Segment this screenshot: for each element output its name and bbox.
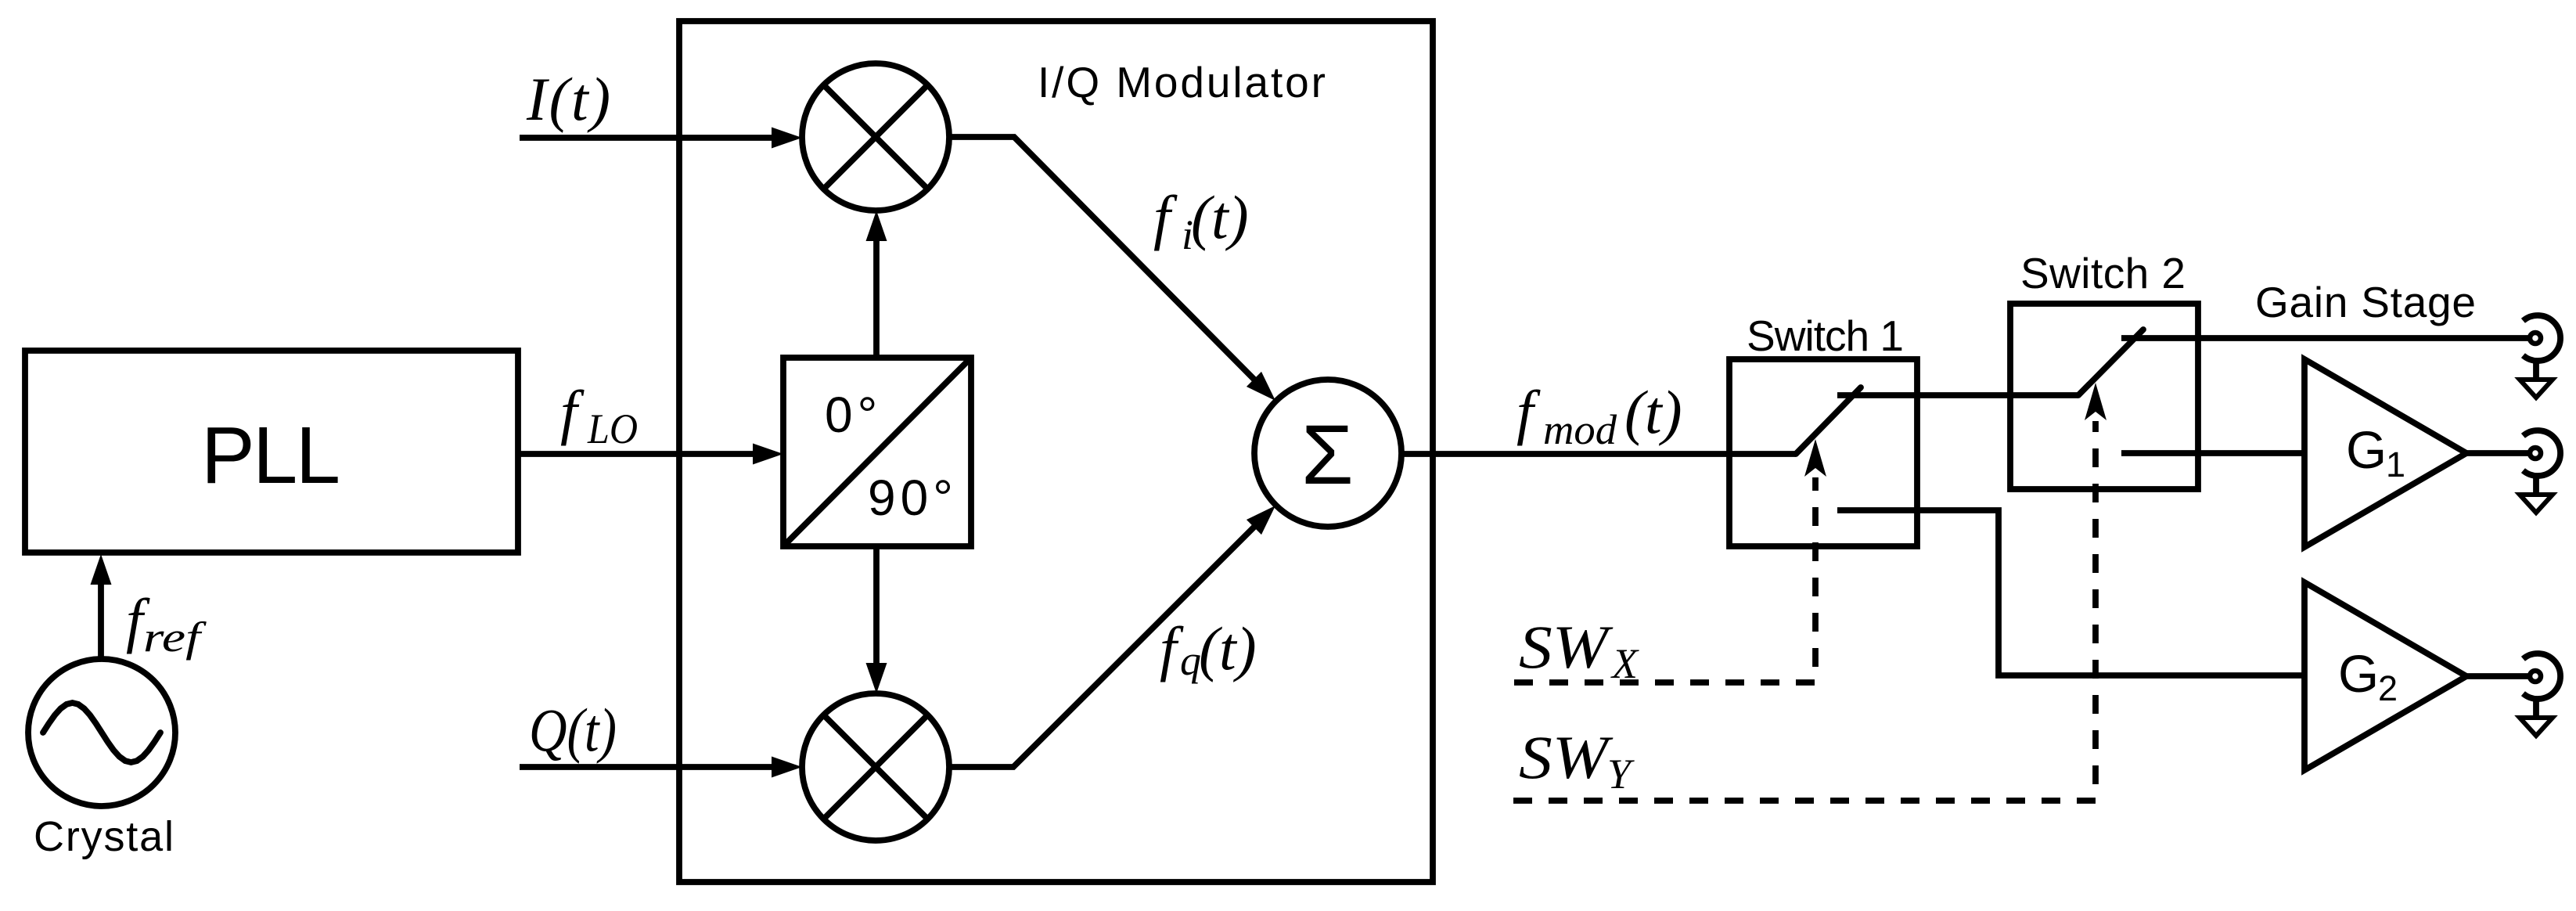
svg-text:(t): (t): [1624, 378, 1682, 446]
svg-text:I/Q Modulator: I/Q Modulator: [1038, 58, 1326, 106]
svg-text:q: q: [1180, 637, 1201, 684]
svg-text:2: 2: [2378, 668, 2398, 708]
svg-text:Q(t): Q(t): [529, 696, 617, 764]
arrowhead SW_Y control: [2085, 383, 2106, 420]
wire splitter to bottom mixer: [873, 546, 880, 664]
crystal oscillator: [28, 659, 175, 806]
wire G1 to output 2: [2466, 450, 2531, 456]
arrowhead SW_X control: [1804, 439, 1826, 477]
phase splitter box: [783, 358, 971, 546]
wire crystal to PLL: [98, 582, 104, 659]
PLL box: [25, 351, 518, 553]
svg-text:G: G: [2338, 645, 2379, 704]
switch 2 upper throw wire to output 1: [2121, 335, 2531, 341]
mixer bottom: [802, 693, 949, 841]
svg-text:Switch 1: Switch 1: [1747, 311, 1904, 360]
wire I(t) input: [520, 135, 772, 141]
mixer top: [802, 63, 949, 211]
svg-text:Crystal: Crystal: [34, 813, 174, 860]
amplifier G1: [2304, 359, 2466, 547]
svg-text:SW: SW: [1519, 613, 1614, 681]
summer circle: [1254, 380, 1401, 527]
svg-text:PLL: PLL: [201, 410, 340, 500]
switch 1 upper throw wire to switch 2 pivot: [1837, 392, 2078, 398]
arrowhead I(t) into top mixer: [772, 128, 802, 149]
switch 2 box: [2010, 304, 2198, 489]
svg-text:0°: 0°: [825, 387, 882, 443]
arrowhead splitter to top mixer: [866, 211, 887, 241]
svg-text:Gain Stage: Gain Stage: [2255, 278, 2476, 326]
switch 1 box: [1729, 359, 1917, 546]
switch 1 lever: [1796, 387, 1861, 454]
arrowhead Q(t) into bottom mixer: [772, 757, 802, 778]
svg-text:G: G: [2346, 421, 2387, 480]
svg-text:SW: SW: [1519, 723, 1614, 791]
arrowhead crystal into PLL: [91, 554, 112, 585]
output connector 3: [2520, 654, 2560, 736]
switch 2 lever: [2078, 329, 2143, 395]
wire f_LO PLL to splitter: [518, 451, 754, 457]
svg-text:ref: ref: [143, 614, 207, 661]
output connector 2: [2520, 430, 2560, 513]
svg-text:mod: mod: [1543, 406, 1617, 453]
amplifier G2: [2304, 582, 2466, 770]
wire G2 to output 3: [2466, 673, 2531, 679]
dashed control SW_X: [1514, 477, 1815, 682]
wire bottom mixer to summer: [949, 525, 1256, 767]
I/Q modulator box: [679, 21, 1433, 882]
svg-text:(t): (t): [1191, 183, 1249, 251]
arrowhead top diagonal into summer: [1247, 372, 1275, 401]
dashed control SW_Y: [1513, 421, 2096, 801]
wire splitter to top mixer: [873, 241, 880, 358]
svg-text:LO: LO: [587, 405, 638, 452]
wire top mixer to summer: [949, 137, 1256, 381]
arrowhead splitter to bottom mixer: [866, 663, 887, 693]
wire summer to switch 1: [1401, 451, 1796, 457]
switch 1 lower throw wire to G2: [1837, 510, 2304, 675]
output connector 1: [2520, 315, 2560, 398]
switch 2 lower throw wire to G1: [2121, 450, 2304, 456]
svg-text:Y: Y: [1607, 751, 1635, 798]
wire Q(t) input: [520, 764, 772, 770]
svg-text:I(t): I(t): [526, 65, 613, 133]
svg-text:90°: 90°: [868, 470, 958, 526]
arrowhead f_LO into splitter: [753, 444, 783, 465]
svg-text:Switch 2: Switch 2: [2020, 249, 2186, 297]
svg-text:X: X: [1610, 640, 1639, 687]
arrowhead bottom diagonal into summer: [1247, 506, 1275, 535]
svg-text:(t): (t): [1199, 614, 1257, 682]
svg-text:1: 1: [2386, 445, 2405, 484]
svg-text:Σ: Σ: [1301, 407, 1354, 502]
crystal sine wave: [43, 703, 160, 762]
